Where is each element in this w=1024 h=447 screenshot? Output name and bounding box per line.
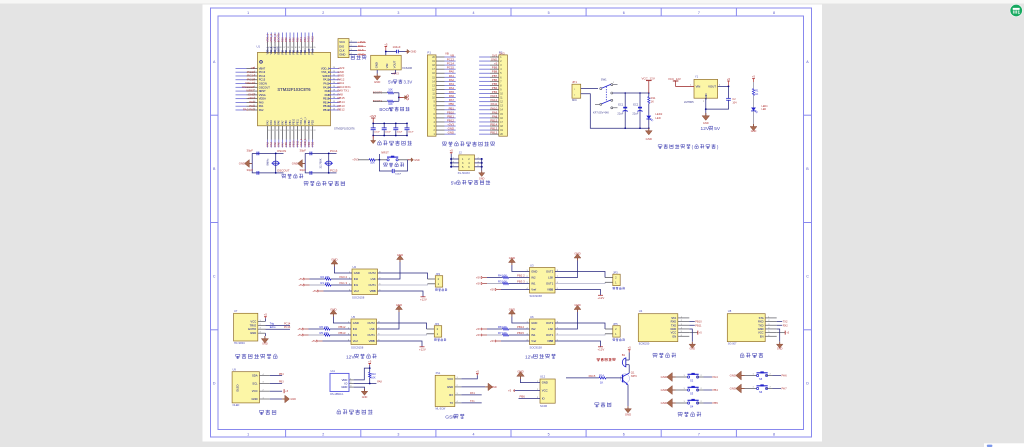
svg-text:XS1: XS1 [436,372,441,375]
svg-text:+5V: +5V [298,283,303,287]
svg-text:PB11: PB11 [297,118,299,124]
svg-text:+5V: +5V [490,339,495,343]
resistor R8 10K BOOT0 [373,89,399,95]
svg-text:PC13: PC13 [259,70,266,74]
crystal Y3 32.768K circuit wires [305,153,336,174]
svg-text:OLED: OLED [236,385,240,392]
svg-text:5V: 5V [451,180,458,186]
svg-text:S4: S4 [690,405,694,409]
svg-text:PA11: PA11 [323,82,330,86]
svg-text:PB12: PB12 [338,108,345,112]
node PB11 label [689,323,702,327]
op-amp U1 STM32F103C8T6 chip body [257,45,356,131]
svg-text:VSS_1: VSS_1 [299,138,303,147]
svg-text:GND: GND [375,62,379,68]
wire Vref input of U5 [311,339,351,343]
ground GND LSK of U2 [378,253,404,279]
svg-text:LM7805: LM7805 [684,100,694,104]
resistor R3 10K input IN1 of U3 [476,280,530,286]
svg-text:8MHz: 8MHz [266,158,270,166]
svg-text:GND: GND [330,308,336,312]
svg-text:+12V: +12V [598,348,605,352]
resistor R4 10K input IN2 of U3 [476,274,530,280]
svg-text:RX1: RX1 [470,392,475,395]
switch S5 push button [730,371,787,381]
svg-text:RXD: RXD [671,320,677,324]
module U11 DS18B20 temperature sensor [330,370,354,396]
resistor R11 1K [648,93,656,116]
svg-text:PB12: PB12 [490,131,497,135]
motor driver U6 SOC9158 [527,315,559,350]
svg-text:PD2: PD2 [313,119,315,124]
node right pin net labels of U1 [338,66,352,112]
ground GND buzzer [625,385,632,417]
svg-text:LED: LED [655,116,660,120]
svg-text:30pF: 30pF [300,149,307,153]
svg-text:5V3: 5V3 [500,52,505,56]
resistor R7 10K reset [369,159,387,165]
node Echo PC13 label [265,326,290,329]
capacitor C12 104uF [405,128,415,134]
svg-text:GND: GND [531,270,537,274]
svg-text:JP3: JP3 [613,270,618,274]
svg-text:C: C [806,274,809,278]
resistor R9 10K BOOT1 [373,99,399,106]
svg-text:VOUT: VOUT [708,85,716,89]
svg-text:5: 5 [548,11,550,15]
svg-text:VDD_3: VDD_3 [275,46,277,54]
svg-text:GND: GND [262,342,268,345]
svg-text:PB10: PB10 [292,140,296,147]
svg-text:32.768K: 32.768K [319,158,323,168]
svg-text:GND: GND [730,374,736,378]
node P2 net labels [490,52,505,135]
svg-text:PC14: PC14 [284,322,291,325]
svg-text:+5: +5 [727,77,731,81]
power +5 OLED [284,389,289,393]
svg-text:PB7: PB7 [288,37,292,42]
wire OUT2 of U3 [555,272,613,278]
svg-text:S3: S3 [690,392,694,396]
diode LED4 [751,105,768,124]
svg-text:+5V: +5V [476,333,481,337]
svg-text:U11: U11 [331,370,336,373]
power +3V3 filter rail [369,114,408,136]
svg-text:PA8: PA8 [377,380,382,383]
svg-text:1: 1 [247,432,249,436]
svg-text:VIBB: VIBB [369,339,375,343]
wire MCU minimal system caption [304,181,345,186]
svg-text:PA10: PA10 [323,85,330,89]
svg-text:IO: IO [542,397,545,401]
resistor R2 10K input IN2 of U2 [298,275,352,281]
ground GND reset [408,158,420,162]
wire right pin wires of U1 [321,66,340,112]
ground GND crystal-1 [239,160,252,168]
motor driver U5 SOC9158 [348,315,380,350]
connector JP5 motor connector [613,322,625,341]
svg-text:JP5: JP5 [613,322,618,326]
svg-text:Y1: Y1 [695,75,699,79]
svg-text:VCC: VCC [671,331,677,335]
wire OUT1 of U5 [377,334,435,335]
svg-text:31: 31 [298,47,300,49]
svg-text:U12: U12 [540,375,546,379]
svg-text:OUT1: OUT1 [546,282,554,286]
svg-text:EC2: EC2 [633,102,639,106]
svg-text:OSCIN: OSCIN [259,82,267,86]
svg-text:TRIG: TRIG [250,323,257,327]
svg-text:R11: R11 [651,96,656,100]
svg-text:PB3: PB3 [279,381,284,384]
svg-text:2: 2 [322,432,324,436]
svg-text:MIC: MIC [572,98,577,102]
svg-text:PA7: PA7 [782,387,788,391]
svg-text:GND: GND [646,137,652,141]
svg-text:RX: RX [449,393,453,397]
svg-text:GND: GND [331,258,337,262]
svg-text:PB11: PB11 [695,323,702,327]
svg-text:PB4: PB4 [713,388,719,392]
svg-text:PB12: PB12 [323,108,330,112]
svg-text:S6: S6 [759,390,763,394]
module U12 SC06 [537,375,555,408]
svg-text:+5: +5 [264,313,268,317]
power +5 ultrasonic [264,313,268,322]
svg-text:10: 10 [268,130,270,132]
svg-text:Vref: Vref [531,288,536,292]
wire GSM caption [445,414,464,421]
svg-text:VDDA: VDDA [259,97,266,101]
svg-text:ECHO: ECHO [248,327,256,331]
connector J1 download port [338,39,357,58]
capacitor EC2 22uF [632,102,642,115]
svg-text:GND: GND [239,162,245,166]
wire OUT1 of U6 [555,334,613,335]
svg-text:BOOT: BOOT [379,107,392,112]
svg-text:PB12: PB12 [339,325,346,329]
svg-text:3: 3 [397,432,399,436]
power +5 U12 [508,389,540,393]
svg-text:Vref: Vref [531,339,536,343]
wire SG-007 caption [740,353,763,358]
svg-text:PC15: PC15 [330,169,338,173]
sheet inner border [218,16,804,430]
ground GND crystal-2 [292,160,305,168]
svg-text:U7: U7 [234,309,238,313]
svg-text:6: 6 [623,11,625,15]
node PB10 label [689,320,702,324]
ground GND U8 [776,329,782,351]
svg-text:IO: IO [344,382,347,386]
svg-text:PA8: PA8 [325,93,330,97]
svg-text:C: C [213,274,216,278]
svg-text:1K: 1K [651,100,655,104]
svg-text:7: 7 [698,11,700,15]
svg-text:PA4: PA4 [713,375,719,379]
svg-text:NRST: NRST [259,89,266,93]
module U8 SG-007 [727,309,776,345]
switch S3 push button [661,386,719,396]
svg-text:EN: EN [673,334,677,338]
svg-text:+5V: +5V [490,288,495,292]
svg-text:+5V: +5V [298,277,303,281]
connector J2 2x3 header [450,151,483,176]
svg-text:22: 22 [313,130,315,132]
svg-text:VCC: VCC [758,331,764,335]
svg-text:JP2: JP2 [436,272,441,276]
bottom right panel fragment [984,443,1024,447]
svg-text:GND: GND [758,327,764,331]
svg-text:PB6: PB6 [292,37,296,42]
wire Vref input of U3 [490,288,530,292]
capacitor C8 30pF bottom [300,168,312,175]
svg-text:27: 27 [283,47,285,49]
wire OUT2 of U6 [555,323,613,329]
svg-text:5V: 5V [388,79,393,84]
svg-text:NRST: NRST [381,150,389,154]
wire Vref input of U6 [490,339,530,343]
svg-text:OUT2: OUT2 [369,271,377,275]
resistor R14 1K base resistor [566,374,623,385]
node left pin net labels of U1 [242,66,256,112]
ground GND LED4 [750,124,757,133]
svg-text:STM32F103C8T6: STM32F103C8T6 [334,126,355,130]
capacitor C4 104uF [393,45,401,53]
svg-text:OUT2: OUT2 [368,321,376,325]
svg-text:GND: GND [690,348,696,351]
svg-text:LSK: LSK [370,327,375,331]
ground GND DS18B20 [354,387,368,399]
svg-text:17: 17 [295,130,297,132]
svg-text:VDD_2: VDD_2 [271,46,273,54]
svg-text:P1: P1 [427,51,431,55]
wire filter caps caption [378,141,412,146]
svg-text:VB: VB [445,52,449,56]
svg-text:PA6: PA6 [278,120,281,125]
svg-text:+5: +5 [476,370,480,374]
wire LM7805 output +5 [706,77,731,109]
svg-text:VDD_2: VDD_2 [321,66,330,70]
svg-text:PB3: PB3 [303,37,307,42]
connector JP1 power input [572,80,581,102]
svg-text:12V: 12V [346,354,355,360]
svg-text:PB0: PB0 [286,120,288,125]
svg-text:Vref: Vref [353,339,358,343]
svg-text:104uF: 104uF [395,173,402,175]
svg-text:PA3: PA3 [266,120,269,125]
svg-text:VIBB: VIBB [547,339,553,343]
svg-text:PC14: PC14 [330,149,338,153]
resistor R5 10K input IN1 of U5 [297,331,351,337]
wire IO net with PA8 label [354,380,383,384]
svg-text:15: 15 [287,130,289,132]
svg-text:STM32F103C8T6: STM32F103C8T6 [277,87,311,92]
power +12V VIBB of U3 [555,290,604,301]
svg-text:+12V: +12V [419,348,426,352]
svg-text:IN2: IN2 [531,276,536,280]
svg-text:PB11: PB11 [295,140,299,147]
svg-text:PA12: PA12 [311,36,315,43]
svg-text:21: 21 [310,130,312,132]
svg-text:PA7: PA7 [281,120,284,125]
power +5 U4 [689,331,702,335]
wire OUT2 of U5 [377,323,435,329]
svg-text:GND: GND [448,131,454,135]
svg-text:GND: GND [777,348,783,351]
svg-text:VSS_2: VSS_2 [321,70,330,74]
switch SW1 KF7.0SV-4XK [593,78,618,115]
svg-text:13: 13 [280,130,282,132]
svg-text:J2: J2 [459,151,462,155]
ground GND backup [479,171,485,181]
wire 5V-to-3.3V caption [388,79,412,84]
diode LED2 [646,112,662,128]
svg-text:GND: GND [730,387,736,391]
svg-text:+5: +5 [508,389,512,393]
svg-text:35: 35 [313,47,315,49]
svg-text:PB15: PB15 [323,97,330,101]
switch S4 push button [661,399,719,409]
resistor R1 10K input IN1 of U2 [298,281,352,287]
svg-text:U8: U8 [728,309,732,313]
svg-text:LED2: LED2 [655,112,662,116]
capacitor C2 104 [726,98,737,105]
svg-text:+5: +5 [384,43,388,47]
svg-text:10K: 10K [371,376,376,379]
svg-text:GND: GND [542,381,548,385]
svg-text:XC6206: XC6206 [402,66,413,70]
svg-text:SC06: SC06 [540,404,547,408]
svg-text:U6: U6 [530,315,534,319]
buzzer B1 active buzzer [597,353,629,373]
svg-text:VDD_1: VDD_1 [305,116,307,124]
svg-text:LSK: LSK [371,277,376,281]
wire 12V DC motor caption right [525,354,556,360]
power VCC_12V into LM7805 [668,77,694,87]
ground GND pin1 of U3 [509,256,530,272]
svg-text:DS-18B20-1: DS-18B20-1 [330,393,344,396]
ground GND LSK of U6 [555,303,581,329]
svg-text:OUT1: OUT1 [369,283,377,287]
svg-text:14: 14 [283,130,285,132]
svg-text:+5V: +5V [297,333,302,337]
crystal Y2 8MHz circuit wires [252,153,283,174]
resistor R12 1K vertical [752,89,759,108]
svg-text:D: D [213,382,216,386]
sheet outer border [211,8,812,437]
crystal Y2 8MHz symbol [266,158,281,166]
wire Vref input of U2 [312,289,352,293]
svg-text:RXD: RXD [758,320,764,324]
svg-text:PB15: PB15 [517,331,524,335]
svg-text:PB3 3: PB3 3 [517,280,525,284]
wire temperature caption [337,409,373,414]
svg-text:U1: U1 [257,45,261,49]
svg-text:GND: GND [574,252,580,256]
wire OUT1 of U3 [555,282,613,283]
svg-text:+5V: +5V [476,282,481,286]
svg-text:D: D [806,382,809,386]
svg-text:PA9: PA9 [325,89,330,93]
svg-text:TXD: TXD [671,323,676,327]
svg-text:IN1: IN1 [353,333,358,337]
ground GND right of capacitor [406,49,417,53]
svg-text:SDA: SDA [252,374,258,378]
svg-text:PA12: PA12 [312,48,315,54]
svg-text:SOC9158: SOC9158 [352,295,365,299]
svg-text:GND: GND [362,396,368,399]
svg-text:3.3V: 3.3V [403,79,412,84]
power +12V VIBB of U5 [377,341,426,352]
ground GND pin1 of U5 [330,308,351,324]
svg-text:GND: GND [411,50,417,54]
svg-text:+5: +5 [450,149,454,153]
svg-text:32: 32 [302,47,304,49]
svg-text:Pin-Hdr2X3: Pin-Hdr2X3 [458,172,471,175]
wire BOOT joining junction [398,93,409,102]
svg-text:IN2: IN2 [353,327,358,331]
svg-text:PB1: PB1 [288,141,292,146]
svg-text:IN1: IN1 [531,333,536,337]
svg-text:VCC: VCC [447,377,453,381]
svg-text:OLED: OLED [233,404,240,407]
svg-text:+3V3: +3V3 [369,114,376,118]
power +12V VIBB of U6 [555,341,604,352]
svg-text:PB6: PB6 [294,49,296,54]
svg-text:GND: GND [625,413,631,417]
resistor R10 10K pullup [369,368,377,383]
wire OUT2 of U2 [378,273,436,279]
svg-text:PB7: PB7 [290,49,292,54]
svg-text:VIBB: VIBB [370,289,376,293]
svg-text:OUT1: OUT1 [368,333,376,337]
wire left pin wires of U1 [236,66,271,112]
svg-text:OUT2: OUT2 [546,270,554,274]
svg-text:PB9: PB9 [280,37,284,42]
svg-text:TX2: TX2 [783,320,788,324]
svg-text:PC14: PC14 [259,74,266,78]
node Trig PC14 label [265,322,290,325]
svg-text:GND: GND [341,385,347,389]
svg-text:104uF: 104uF [393,45,401,49]
svg-text:30: 30 [295,47,297,49]
svg-text:12V: 12V [701,126,710,132]
capacitor EC1 22uF [617,102,627,115]
wire 12V DC motor caption left [346,354,377,360]
svg-text:104uF: 104uF [385,132,391,134]
svg-text:104uF: 104uF [397,132,403,134]
svg-text:6: 6 [623,432,625,436]
svg-text:22uF: 22uF [632,111,638,115]
svg-text:PB5: PB5 [297,49,299,54]
svg-text:PB14: PB14 [517,325,524,329]
svg-text:+5: +5 [752,75,756,79]
svg-text:GND: GND [447,385,453,389]
svg-text:EC90250: EC90250 [639,343,650,346]
power +12V VIBB of U2 [378,291,427,302]
svg-text:BOOT0: BOOT0 [277,33,281,42]
svg-text:U4: U4 [639,309,643,313]
power +5 into regulator [384,43,388,51]
svg-text:PA5: PA5 [274,120,277,125]
svg-text:30pF: 30pF [247,149,254,153]
svg-text:GND: GND [491,386,497,389]
ground GND ultrasonic [261,333,268,345]
svg-text:7: 7 [698,432,700,436]
schematic sheet [203,5,823,442]
node download port net labels [357,40,366,56]
